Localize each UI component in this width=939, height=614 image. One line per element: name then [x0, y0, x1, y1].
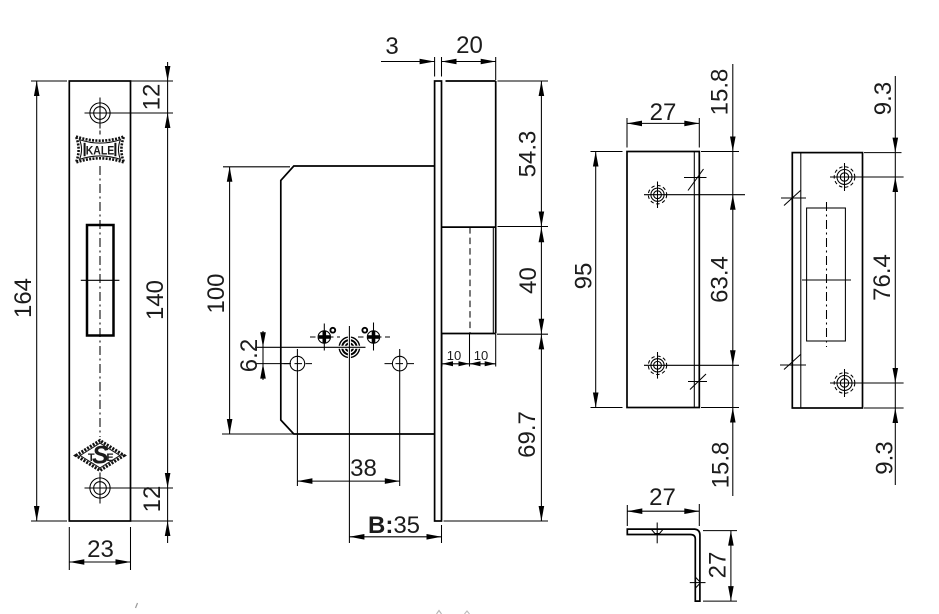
pin hole left [330, 328, 335, 333]
svg-text:140: 140 [142, 280, 169, 320]
svg-text:12: 12 [139, 84, 166, 111]
dim 3 [381, 61, 435, 63]
dim 164 [31, 80, 67, 82]
bottom screw hole [90, 478, 110, 498]
latch bolt block [442, 226, 496, 228]
svg-text:E: E [106, 452, 113, 464]
VIEW B : lock case side [203, 32, 548, 543]
svg-text:27: 27 [705, 552, 732, 579]
screw hole top [654, 191, 662, 199]
faceplate strip side view [435, 81, 442, 521]
dim 27 [626, 118, 628, 148]
dim 27 horizontal [626, 505, 628, 526]
svg-text:100: 100 [203, 273, 230, 313]
svg-text:23: 23 [87, 536, 114, 563]
svg-text:15.8: 15.8 [708, 442, 735, 489]
case upper section [446, 80, 496, 82]
svg-text:38: 38 [350, 455, 377, 482]
dim 10 10 [441, 334, 443, 367]
svg-text:6.2: 6.2 [236, 339, 263, 372]
screw hole top [840, 173, 848, 181]
VIEW D : strike plate front [780, 76, 904, 485]
svg-text:3: 3 [385, 33, 398, 60]
svg-text:40: 40 [515, 267, 542, 294]
lip fold line [800, 153, 802, 408]
svg-text:10: 10 [447, 348, 461, 363]
VIEW A : faceplate front [10, 62, 173, 570]
strike box plate outline [627, 152, 699, 408]
countersink horizontal leg [651, 529, 663, 533]
svg-text:15.8: 15.8 [707, 69, 734, 116]
dim 27 vertical [703, 530, 737, 532]
lock body outline [281, 166, 435, 434]
dim 23 [68, 527, 70, 570]
svg-text:12: 12 [139, 486, 166, 513]
spindle hub [338, 336, 361, 359]
dim 12 top / 140 / 12 bottom shared line [131, 80, 173, 82]
bend mark bottom [780, 364, 806, 366]
screw boss left [318, 331, 330, 343]
svg-text:27: 27 [650, 99, 677, 126]
top screw hole [90, 103, 110, 123]
fixing hole left [290, 356, 305, 371]
svg-text:9.3: 9.3 [872, 441, 899, 474]
bend mark top [684, 177, 707, 179]
svg-text:54.3: 54.3 [515, 131, 542, 178]
TSE logo [76, 441, 124, 471]
dim 6.2 [262, 331, 264, 380]
fixing hole right [392, 356, 407, 371]
bend mark top [781, 197, 806, 199]
svg-text:95: 95 [571, 263, 598, 290]
countersink vertical leg [696, 577, 700, 581]
fold line [693, 152, 695, 408]
dim 54.3 / 40 / 69.7 shared line [498, 80, 549, 82]
dim 15.8 / 63.4 / 15.8 shared line [701, 151, 739, 153]
screw hole bottom [840, 379, 848, 387]
angle bracket profile [627, 529, 700, 601]
svg-text:9.3: 9.3 [870, 82, 897, 115]
screw hole bottom [654, 361, 662, 369]
dim 95 [591, 151, 623, 153]
svg-text:B:35: B:35 [368, 512, 420, 539]
svg-text:KALE: KALE [86, 143, 115, 157]
dim 20 [442, 61, 496, 63]
screw boss right [367, 331, 379, 343]
svg-text:20: 20 [456, 32, 483, 59]
faceplate outline [69, 81, 130, 521]
pin hole right [362, 328, 367, 333]
svg-text:10: 10 [474, 348, 488, 363]
bend mark bottom [688, 381, 707, 383]
VIEW E : angle bracket [627, 484, 737, 601]
dim 9.3 / 76.4 / 9.3 shared line [864, 152, 902, 154]
VIEW C : strike box front [571, 64, 746, 496]
svg-text:69.7: 69.7 [514, 411, 541, 458]
bottom fragments [136, 603, 470, 614]
strike plate outline [792, 153, 862, 408]
svg-text:63.4: 63.4 [707, 256, 734, 303]
latch slot [87, 225, 114, 336]
svg-text:164: 164 [10, 278, 37, 318]
KALE logo [76, 137, 124, 163]
svg-text:27: 27 [649, 484, 676, 511]
latch opening slot [807, 208, 846, 341]
dim 38 [297, 480, 399, 482]
spindle centerlines [255, 346, 366, 348]
svg-text:76.4: 76.4 [869, 254, 896, 301]
dim 100 [223, 166, 290, 168]
plate vertical centerline [99, 131, 101, 438]
dim B:35 [441, 525, 443, 543]
